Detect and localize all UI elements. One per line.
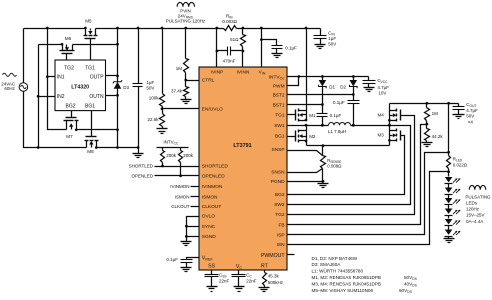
svg-text:SNSN: SNSN — [271, 170, 285, 176]
svg-text:D1, D2: NXP BAT46W: D1, D2: NXP BAT46W — [312, 256, 358, 261]
svg-text:BST2: BST2 — [273, 93, 285, 99]
svg-text:LEDs: LEDs — [466, 201, 478, 206]
svg-text:22nF: 22nF — [246, 279, 257, 284]
svg-text:51Ω: 51Ω — [230, 37, 239, 42]
svg-text:SHORTLED: SHORTLED — [202, 164, 229, 170]
svg-text:VIN: VIN — [259, 70, 266, 76]
svg-text:SYNC: SYNC — [202, 224, 216, 230]
svg-text:1μF: 1μF — [328, 36, 336, 41]
svg-text:ISP: ISP — [277, 233, 285, 239]
svg-text:TG1: TG1 — [85, 65, 95, 71]
svg-text:BG1: BG1 — [275, 134, 285, 140]
svg-text:L1: WÜRTH 7443556780: L1: WÜRTH 7443556780 — [312, 268, 364, 274]
svg-text:100k: 100k — [149, 95, 160, 100]
svg-text:50V: 50V — [466, 114, 474, 119]
svg-text:500kHz: 500kHz — [268, 280, 284, 285]
svg-text:CC: CC — [246, 273, 252, 279]
svg-text:1μF: 1μF — [146, 80, 154, 85]
svg-text:LT3791: LT3791 — [233, 143, 251, 149]
svg-text:TG1: TG1 — [275, 113, 285, 119]
svg-text:PWMOUT: PWMOUT — [261, 253, 285, 259]
svg-text:RT: RT — [261, 264, 269, 270]
svg-text:IVINN: IVINN — [237, 70, 250, 76]
svg-text:10V: 10V — [378, 90, 386, 95]
svg-text:4.7μF: 4.7μF — [377, 85, 389, 90]
svg-text:SW1: SW1 — [274, 123, 285, 129]
svg-text:×4: ×4 — [468, 120, 474, 125]
svg-text:M1: M1 — [309, 113, 316, 118]
svg-text:TG2: TG2 — [275, 212, 285, 218]
svg-text:OUTN: OUTN — [89, 94, 104, 100]
svg-text:INTVCC: INTVCC — [163, 140, 179, 146]
svg-text:PULSATING: PULSATING — [465, 194, 491, 199]
svg-text:4.7μF: 4.7μF — [466, 108, 478, 113]
svg-text:200k: 200k — [183, 153, 194, 158]
svg-text:IVINP: IVINP — [211, 70, 224, 76]
svg-text:470nF: 470nF — [223, 58, 236, 63]
svg-text:15V–25V: 15V–25V — [466, 213, 485, 218]
svg-text:OUTP: OUTP — [90, 75, 105, 81]
svg-text:44.2k: 44.2k — [432, 134, 444, 139]
svg-text:22.6k: 22.6k — [147, 117, 159, 122]
svg-text:IVINMON: IVINMON — [170, 184, 189, 189]
svg-text:EN/UVLO: EN/UVLO — [202, 106, 223, 112]
svg-text:SNSP: SNSP — [272, 147, 285, 153]
svg-text:M3: M3 — [378, 133, 385, 138]
svg-text:0A–4.4A: 0A–4.4A — [466, 219, 483, 224]
svg-text:D3: D3 — [123, 85, 129, 90]
svg-text:CVCC: CVCC — [377, 78, 388, 84]
svg-text:CTRL: CTRL — [202, 78, 215, 84]
svg-text:1M: 1M — [432, 111, 439, 116]
svg-text:OVLO: OVLO — [202, 214, 216, 220]
svg-text:PWM: PWM — [273, 83, 285, 89]
svg-text:BG2: BG2 — [275, 192, 285, 198]
svg-text:LT4320: LT4320 — [71, 85, 89, 91]
svg-text:M4: M4 — [378, 113, 385, 118]
svg-text:BG2: BG2 — [65, 103, 75, 109]
svg-text:VC: VC — [236, 264, 242, 270]
svg-text:M1, M2: RENESAS RJK0651DPB: M1, M2: RENESAS RJK0651DPB — [312, 275, 381, 280]
svg-text:120Hz: 120Hz — [466, 207, 480, 212]
svg-text:0.1μF: 0.1μF — [166, 257, 178, 262]
svg-text:D1: D1 — [329, 85, 335, 90]
svg-text:BST1: BST1 — [273, 103, 285, 109]
svg-text:PGND: PGND — [271, 179, 285, 185]
svg-text:M7: M7 — [66, 134, 73, 139]
svg-text:CLKOUT: CLKOUT — [202, 204, 222, 210]
svg-text:0.022Ω: 0.022Ω — [453, 163, 468, 168]
svg-text:BG1: BG1 — [85, 103, 95, 109]
svg-text:PULSATING 120Hz: PULSATING 120Hz — [166, 19, 206, 24]
svg-text:37.4k: 37.4k — [171, 89, 183, 94]
svg-text:ISMON: ISMON — [202, 194, 218, 200]
svg-text:M2: M2 — [309, 134, 316, 139]
svg-text:60VDS: 60VDS — [399, 288, 413, 294]
svg-text:M3, M4: RENESAS RJK0451DPB: M3, M4: RENESAS RJK0451DPB — [312, 281, 381, 286]
svg-text:RLED: RLED — [453, 157, 463, 163]
svg-text:22nF: 22nF — [219, 278, 230, 283]
svg-text:0.1μF: 0.1μF — [330, 113, 342, 118]
svg-text:IN2: IN2 — [57, 94, 65, 100]
svg-text:1M: 1M — [176, 66, 183, 71]
svg-text:SW2: SW2 — [274, 202, 285, 208]
svg-text:50VDS: 50VDS — [404, 275, 418, 281]
svg-text:OPENLED: OPENLED — [202, 174, 225, 180]
svg-text:L1 7.8μH: L1 7.8μH — [328, 129, 346, 134]
svg-text:CSS: CSS — [219, 272, 227, 278]
svg-text:FB: FB — [278, 223, 284, 229]
svg-text:0.1μF: 0.1μF — [285, 45, 297, 50]
svg-text:M6: M6 — [65, 36, 72, 41]
svg-text:SGND: SGND — [202, 234, 216, 240]
svg-text:SHORTLED: SHORTLED — [129, 164, 154, 169]
svg-text:INTVCC: INTVCC — [269, 74, 285, 80]
svg-text:CLKOUT: CLKOUT — [171, 204, 190, 209]
svg-text:IVINMON: IVINMON — [202, 184, 223, 190]
svg-text:M5: M5 — [85, 18, 92, 23]
svg-text:COUT: COUT — [466, 102, 476, 108]
svg-text:VREF: VREF — [202, 255, 214, 261]
svg-text:SS: SS — [208, 264, 215, 270]
svg-text:0.008Ω: 0.008Ω — [327, 163, 342, 168]
svg-text:TG2: TG2 — [64, 65, 74, 71]
svg-text:200k: 200k — [166, 153, 177, 158]
svg-text:ISMON: ISMON — [175, 194, 190, 199]
svg-text:D2: D2 — [340, 85, 346, 90]
svg-text:ISN: ISN — [277, 242, 286, 248]
svg-text:0.1μF: 0.1μF — [333, 100, 345, 105]
svg-text:40VDS: 40VDS — [404, 281, 418, 287]
svg-text:50V: 50V — [146, 86, 154, 91]
svg-text:0.003Ω: 0.003Ω — [222, 19, 237, 24]
svg-text:IN1: IN1 — [57, 75, 65, 81]
svg-text:50V: 50V — [328, 42, 336, 47]
svg-text:D3: SMAJ60A: D3: SMAJ60A — [312, 262, 342, 267]
svg-text:OPENLED: OPENLED — [131, 174, 153, 179]
svg-text:M5–M8: VISHAY SUM110N06: M5–M8: VISHAY SUM110N06 — [312, 288, 374, 293]
svg-text:60Hz: 60Hz — [4, 86, 15, 91]
svg-text:45.3k: 45.3k — [268, 274, 280, 279]
svg-text:M8: M8 — [87, 149, 94, 154]
